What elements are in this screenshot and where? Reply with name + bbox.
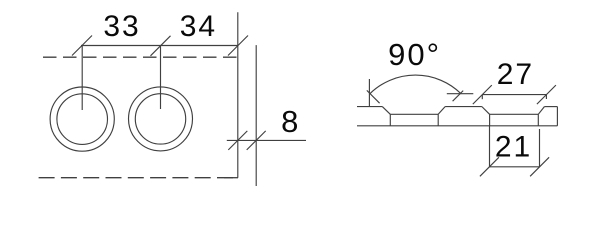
tick at x=238 dimension 34 end: [228, 36, 248, 56]
svg-text:34: 34: [180, 10, 217, 43]
countersink S1 right slope: [438, 107, 445, 115]
dimension line 8: [227, 139, 306, 141]
wire top hidden edge (dashed) of plate, top view: [43, 56, 237, 58]
dimension line 21: [489, 166, 539, 168]
hole H2 countersink outer circle: [129, 87, 193, 151]
countersink S1 left slope: [382, 107, 390, 115]
angle 90 left extension line: [368, 79, 370, 107]
countersink S1 transition line: [390, 113, 438, 115]
tick at x=256 dimension 8: [247, 131, 266, 150]
tick 21 left: [480, 157, 499, 176]
wire section right end edge: [556, 107, 558, 126]
extension line 21 right: [539, 129, 541, 167]
svg-text:33: 33: [103, 10, 140, 43]
countersink S2 left slope: [482, 107, 490, 115]
wire section top surface middle segment: [445, 106, 482, 108]
angle 90 dimension arc: [370, 75, 461, 94]
tick 21 right: [530, 157, 549, 176]
hole H1 countersink outer circle: [50, 87, 114, 151]
extension line from hole H1 center: [81, 46, 83, 111]
hole H2 bore inner circle: [135, 94, 185, 144]
svg-text:27: 27: [497, 58, 534, 91]
angle 90 left tick: [367, 90, 380, 103]
bore S2 right wall: [537, 114, 539, 126]
extension stub 27 left: [481, 95, 483, 100]
dimension line 33/34: [81, 45, 238, 47]
tick 27 right: [537, 85, 556, 104]
wire bottom edge corner segment: [224, 177, 238, 179]
hole H1 bore inner circle: [57, 94, 108, 145]
tick at x=160: [151, 36, 171, 56]
extension line from hole H2 center: [160, 46, 162, 110]
wire section top surface right segment: [544, 106, 557, 108]
bore S1 left wall: [389, 114, 391, 126]
extension line 21 left: [489, 126, 491, 167]
dimension line 27: [482, 94, 546, 96]
angle 90 right tail line: [447, 93, 474, 95]
bore S2 left wall: [489, 114, 491, 126]
angle 90 right tick: [453, 91, 464, 102]
countersink S2 right slope: [538, 107, 544, 115]
wire section bottom surface: [357, 125, 557, 127]
tick 27 left: [473, 85, 492, 104]
svg-text:8: 8: [281, 104, 298, 139]
wire bottom hidden edge (dashed) of plate, top view: [39, 177, 238, 179]
tick at x=82: [72, 36, 92, 56]
svg-text:21: 21: [495, 131, 532, 164]
tick at x=238 dimension 8: [228, 131, 247, 150]
bore S1 right wall: [437, 114, 439, 126]
wire right edge of plate, top view: [237, 12, 239, 177]
wire section top surface left segment: [357, 106, 382, 108]
countersink S2 transition line: [490, 113, 539, 115]
extension stub 27 right: [545, 95, 547, 99]
svg-text:90°: 90°: [388, 37, 441, 72]
extension line for 8 dimension: [255, 45, 257, 186]
